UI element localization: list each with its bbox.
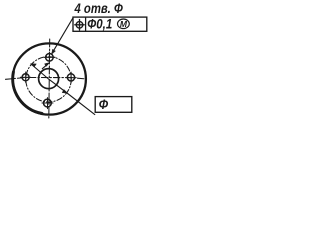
svg-text:4 отв. Ф: 4 отв. Ф bbox=[74, 1, 123, 16]
centre tick horizontal through right hole bbox=[66, 77, 76, 79]
horizontal centerline bbox=[6, 78, 87, 80]
hole left bbox=[22, 74, 29, 81]
leader arrowhead at hole bbox=[52, 49, 56, 54]
centre tick horizontal through left hole bbox=[21, 76, 31, 78]
centre tick vertical through right hole bbox=[70, 72, 72, 83]
position symbol (circle) bbox=[76, 22, 83, 29]
svg-text:Ф: Ф bbox=[99, 96, 109, 112]
position symbol vertical bar bbox=[79, 20, 81, 30]
M modifier circle bbox=[118, 19, 130, 29]
outer circle thickened lower-left arc bbox=[13, 72, 42, 114]
center hole bbox=[39, 69, 59, 89]
centre tick vertical through bottom hole bbox=[47, 98, 49, 109]
arrowhead upper-left on bolt circle bbox=[31, 64, 37, 67]
arrowhead lower-right on bolt circle bbox=[62, 90, 68, 94]
bolt circle (dash-dot) bbox=[26, 57, 71, 102]
tolerance frame divider bbox=[85, 17, 87, 31]
leader line from top hole to tolerance frame bbox=[52, 18, 73, 53]
centre tick vertical through top hole bbox=[48, 52, 50, 62]
tolerance frame outline bbox=[73, 17, 147, 31]
svg-text:Ф0,1: Ф0,1 bbox=[87, 16, 112, 31]
diagonal bolt-circle diameter dimension line bbox=[31, 64, 95, 115]
hole bottom bbox=[44, 99, 52, 107]
centre tick vertical through left hole bbox=[25, 72, 27, 83]
outer circle of flange bbox=[13, 43, 86, 114]
position symbol horizontal bar bbox=[75, 24, 84, 26]
centre tick horizontal through bottom hole bbox=[42, 102, 53, 104]
vertical centerline bbox=[48, 39, 51, 119]
short arrow pointing at top hole from lower-left bbox=[42, 63, 49, 68]
hole right bbox=[67, 74, 74, 81]
svg-text:М: М bbox=[120, 19, 128, 29]
centre tick horizontal through top hole bbox=[44, 56, 55, 58]
hole top bbox=[46, 54, 54, 62]
theoretical dimension box bbox=[95, 97, 132, 113]
